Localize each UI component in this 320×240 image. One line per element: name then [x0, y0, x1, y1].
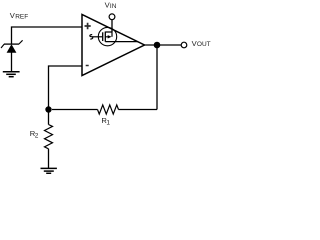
terminal VOUT — [181, 42, 187, 48]
node VREF label — [10, 11, 28, 20]
ground (zener anode) — [3, 72, 20, 77]
wire VIN terminal to MOSFET source — [111, 20, 113, 32]
ground (R2 bottom) — [41, 168, 57, 173]
junction feedback node — [45, 106, 51, 112]
zener diode (VREF reference) — [1, 40, 23, 71]
node VOUT label — [192, 39, 211, 48]
terminal VIN — [109, 14, 115, 20]
svg-text:REF: REF — [15, 14, 28, 21]
svg-text:OUT: OUT — [197, 41, 211, 48]
svg-text:2: 2 — [35, 132, 39, 139]
svg-text:IN: IN — [110, 3, 117, 10]
resistor R1 (feedback top) — [52, 105, 157, 127]
transistor (P-channel MOSFET pass element) — [98, 27, 137, 45]
wire op-amp output — [145, 44, 182, 46]
wire feedback node to inverting input — [49, 66, 83, 110]
node VIN label — [105, 0, 117, 9]
resistor R2 (feedback bottom) — [30, 110, 53, 169]
junction output node — [154, 42, 161, 49]
wire VOUT down to R1 — [156, 45, 158, 110]
op-amp (error amplifier triangle with + and - inputs) — [82, 15, 145, 76]
wire gate internal-connection squiggle — [90, 35, 103, 40]
wire VREF to non-inverting input — [12, 27, 83, 44]
svg-text:1: 1 — [106, 120, 110, 127]
